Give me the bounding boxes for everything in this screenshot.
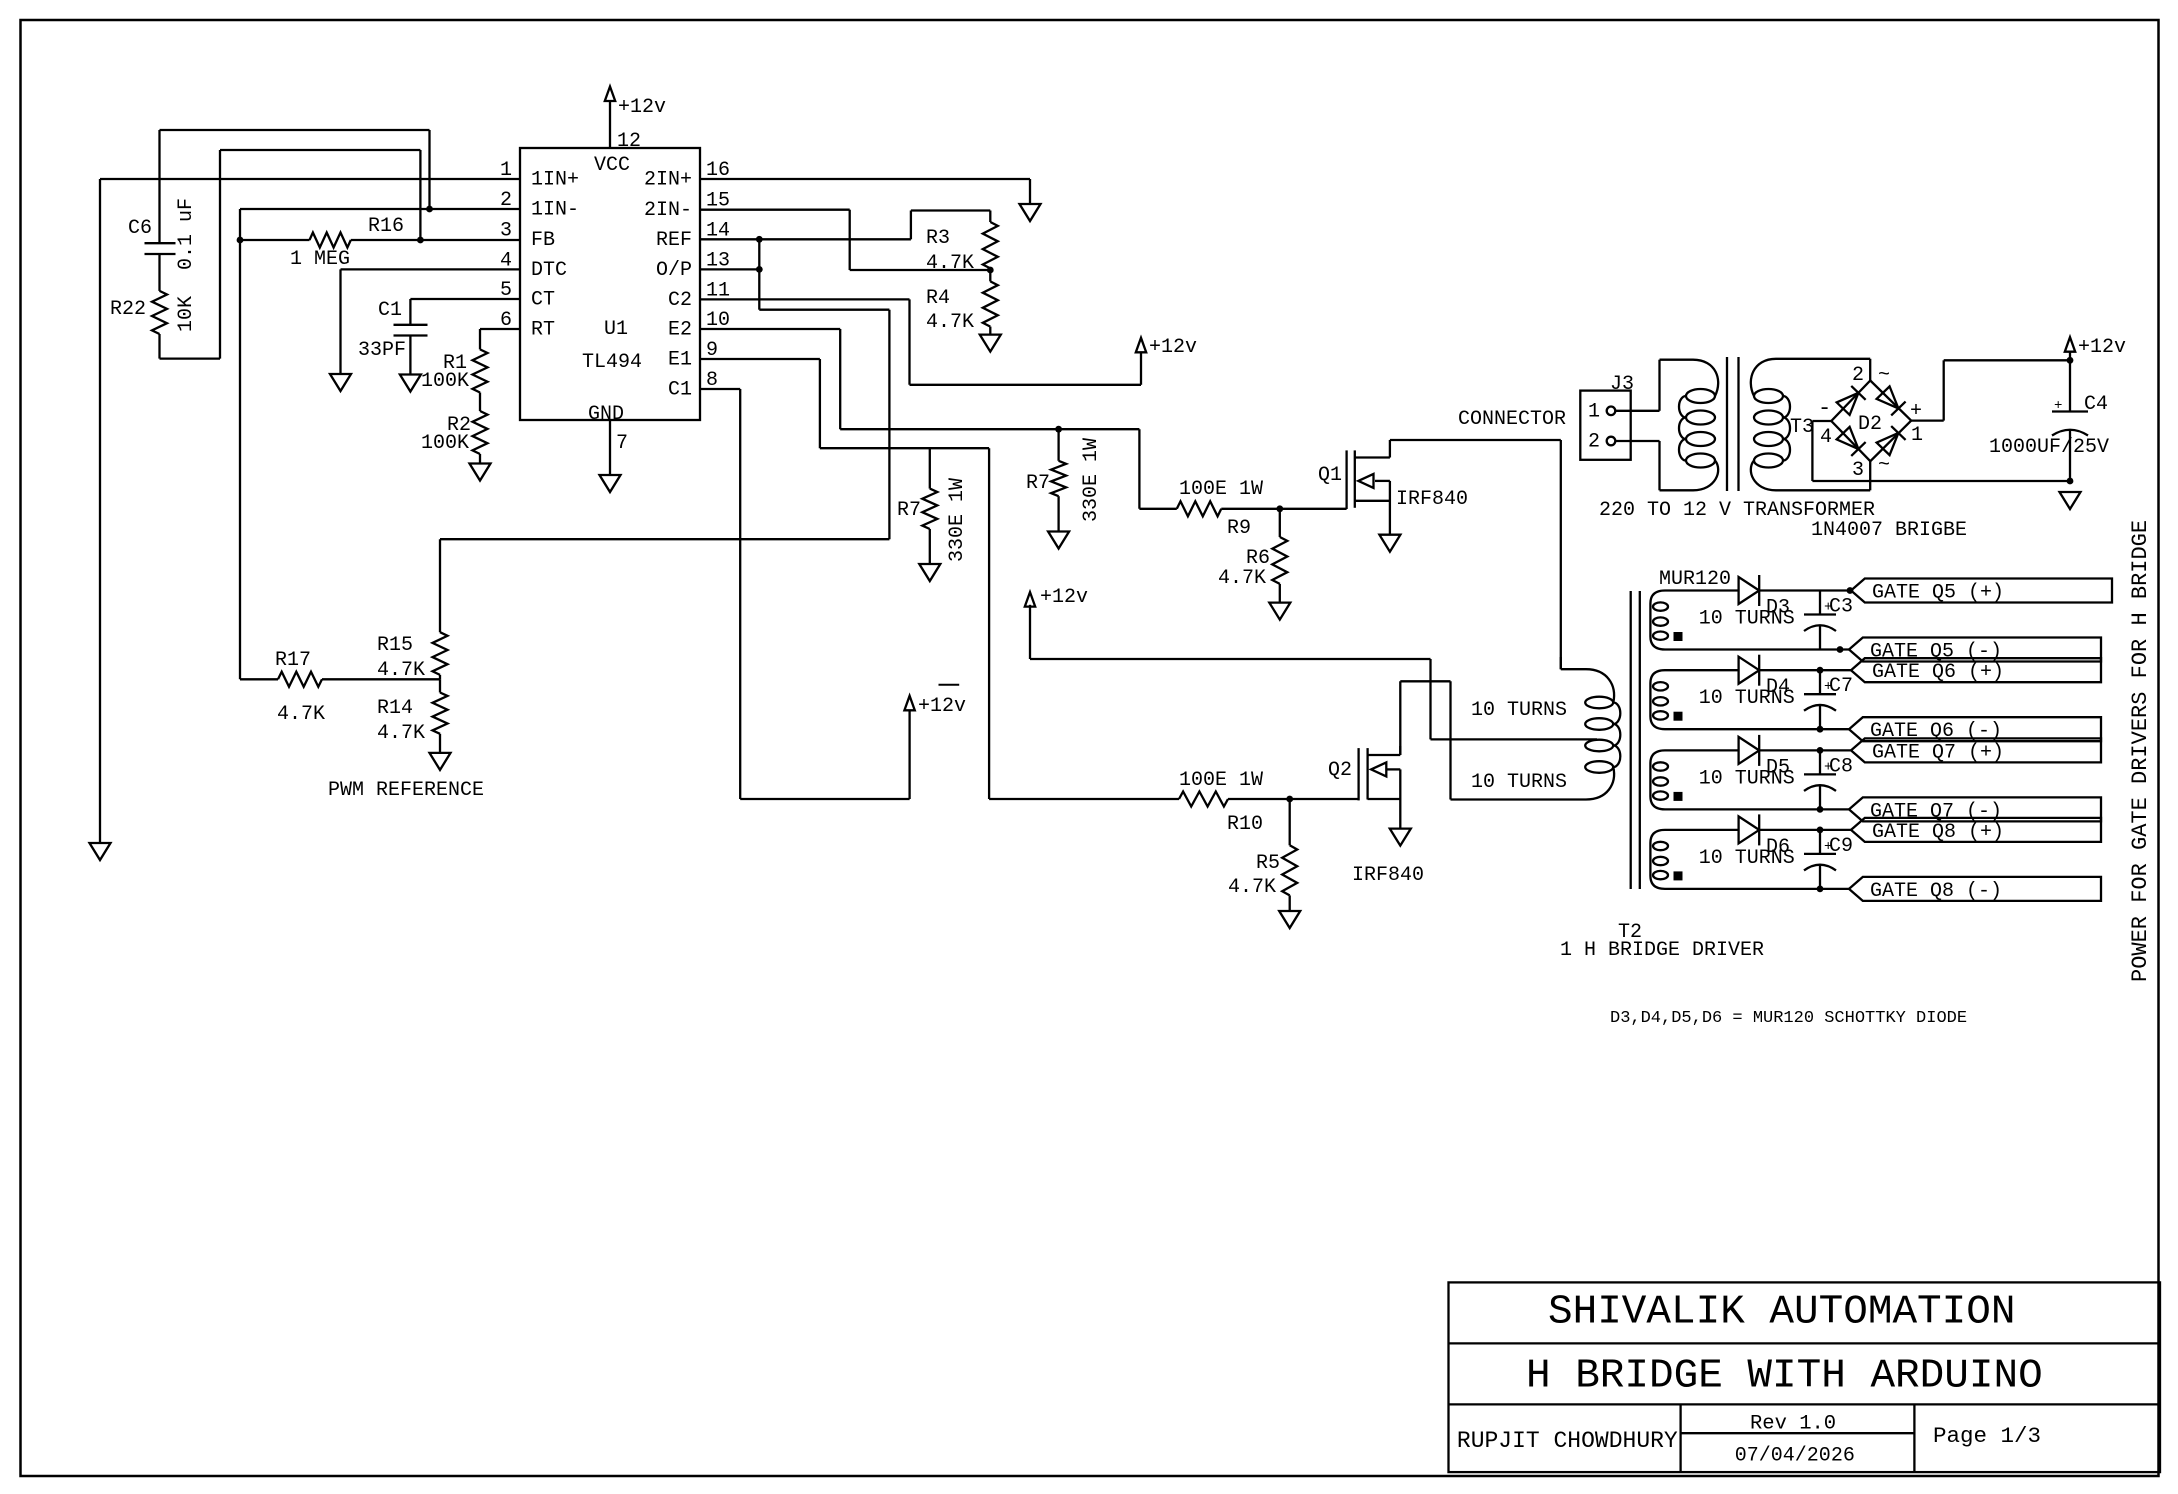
node R9/gate junction	[1276, 505, 1283, 512]
svg-text:Q2: Q2	[1328, 759, 1352, 782]
svg-text:C1: C1	[668, 379, 692, 402]
svg-text:33PF: 33PF	[358, 339, 406, 362]
transformer T2 secondary winding 1	[1650, 591, 1794, 650]
svg-text:H BRIDGE WITH ARDUINO: H BRIDGE WITH ARDUINO	[1526, 1354, 2043, 1400]
node junction pin2	[426, 206, 433, 213]
svg-text:C3: C3	[1829, 596, 1853, 619]
wire pin2 1IN-	[240, 208, 520, 210]
wire T3 secondary bottom to bridge	[1869, 461, 1871, 490]
svg-text:GATE Q8 (+): GATE Q8 (+)	[1872, 821, 2004, 844]
transformer T2 secondary winding 2	[1650, 670, 1794, 729]
title block	[1449, 1282, 2161, 1472]
wire center tap	[1030, 605, 1597, 740]
wire top (C6 top to pin2 drop)	[160, 129, 430, 131]
node O/P junction	[756, 266, 763, 273]
ground (R5)	[1279, 911, 1300, 928]
svg-text:2IN+: 2IN+	[644, 169, 692, 192]
svg-text:SHIVALIK AUTOMATION: SHIVALIK AUTOMATION	[1548, 1290, 2015, 1336]
diode D4 MUR120	[1672, 655, 1851, 700]
svg-text:1N4007 BRIGBE: 1N4007 BRIGBE	[1811, 519, 1967, 542]
svg-text:+12v: +12v	[918, 695, 966, 718]
wire bridge plus rail	[1911, 360, 2070, 420]
svg-text:PWM REFERENCE: PWM REFERENCE	[328, 779, 484, 802]
svg-text:R7: R7	[897, 499, 921, 522]
node R7 junction	[1055, 426, 1062, 433]
svg-text:E1: E1	[668, 349, 692, 372]
svg-text:C2: C2	[668, 289, 692, 312]
svg-text:TL494: TL494	[582, 351, 642, 374]
wire RT pin6	[480, 329, 520, 349]
transformer T3 secondary winding	[1751, 359, 1870, 491]
wire long left drop	[99, 179, 101, 843]
svg-text:R5: R5	[1256, 852, 1280, 875]
svg-text:R9: R9	[1227, 517, 1251, 540]
node FB junction	[237, 237, 244, 244]
svg-text:RT: RT	[531, 319, 555, 342]
resistor R22 10K	[110, 291, 198, 359]
svg-text:VCC: VCC	[594, 154, 630, 177]
node GATE Q6 (+) flag	[1851, 658, 2101, 684]
wire E2 pin10	[700, 329, 1139, 429]
wire drop to FB wire	[419, 150, 421, 240]
resistor R16	[240, 215, 520, 271]
svg-text:GATE Q7 (+): GATE Q7 (+)	[1872, 741, 2004, 764]
wire E1 pin9	[700, 359, 989, 448]
wire CT pin5	[410, 298, 520, 300]
svg-text:2: 2	[1852, 364, 1864, 387]
svg-text:GND: GND	[588, 403, 624, 426]
wire pin1 1IN+	[100, 178, 520, 180]
wire C2chain to R15	[440, 539, 889, 632]
transistor Q1 IRF840	[1318, 440, 1468, 535]
svg-text:C7: C7	[1829, 675, 1853, 698]
ground (R6)	[1269, 603, 1290, 620]
node winding4 top junction	[1817, 827, 1824, 834]
capacitor C3	[1804, 591, 1853, 650]
node winding2 top junction	[1817, 667, 1824, 674]
svg-text:GATE Q6 (-): GATE Q6 (-)	[1870, 720, 2002, 743]
node R3/R4 junction	[987, 267, 994, 274]
diode D6 MUR120	[1672, 814, 1851, 859]
arrow down-left terminal	[90, 843, 111, 860]
ground (GND pin 7)	[600, 420, 621, 492]
capacitor C8	[1804, 750, 1853, 809]
svg-text:O/P: O/P	[656, 259, 692, 282]
svg-text:R3: R3	[926, 227, 950, 250]
ground (2IN+)	[1020, 204, 1041, 221]
svg-text:4.7K: 4.7K	[1218, 567, 1266, 590]
svg-text:E2: E2	[668, 319, 692, 342]
svg-text:10 TURNS: 10 TURNS	[1471, 771, 1567, 794]
svg-text:~: ~	[1878, 454, 1890, 477]
svg-text:100E 1W: 100E 1W	[1179, 769, 1263, 792]
svg-text:CT: CT	[531, 289, 555, 312]
svg-text:1IN+: 1IN+	[531, 169, 579, 192]
svg-text:IRF840: IRF840	[1396, 488, 1468, 511]
svg-text:1IN-: 1IN-	[531, 199, 579, 222]
svg-text:DTC: DTC	[531, 259, 567, 282]
node GATE Q7 (-) flag	[1849, 797, 2101, 823]
svg-text:IRF840: IRF840	[1352, 864, 1424, 887]
svg-text:10 TURNS: 10 TURNS	[1471, 699, 1567, 722]
power +12v (T2 center tap)	[1025, 586, 1088, 609]
resistor R10 100E 1W	[1179, 769, 1290, 836]
op-amp U1 TL494 PWM controller	[500, 130, 730, 455]
svg-text:GATE Q6 (+): GATE Q6 (+)	[1872, 661, 2004, 684]
node GATE Q7 (+) flag	[1851, 738, 2101, 764]
svg-text:100K: 100K	[421, 432, 469, 455]
svg-text:R17: R17	[275, 649, 311, 672]
svg-text:C9: C9	[1829, 835, 1853, 858]
node winding1 bottom junction	[1837, 646, 1844, 653]
node GATE Q5 (-) flag	[1849, 638, 2101, 664]
connector J3	[1580, 373, 1634, 460]
svg-text:3: 3	[1852, 459, 1864, 482]
svg-text:D3,D4,D5,D6 = MUR120 SCHOTTKY: D3,D4,D5,D6 = MUR120 SCHOTTKY DIODE	[1610, 1009, 1967, 1028]
svg-text:07/04/2026: 07/04/2026	[1735, 1445, 1855, 1468]
svg-text:~: ~	[1878, 364, 1890, 387]
wire DTC pin4	[341, 269, 521, 374]
svg-text:D5: D5	[1766, 756, 1790, 779]
power +12v (C1 net, inverted)	[904, 685, 966, 718]
node GATE Q5 (+) flag	[1851, 579, 2112, 605]
ground (R7 left)	[919, 564, 940, 581]
svg-text:330E 1W: 330E 1W	[946, 478, 969, 562]
capacitor C9	[1804, 830, 1853, 889]
resistor R1 100K	[421, 349, 488, 393]
svg-text:4.7K: 4.7K	[277, 703, 325, 726]
svg-text:+12v: +12v	[2078, 336, 2126, 359]
resistor R5 4.7K	[1228, 799, 1297, 911]
svg-text:0.1 uF: 0.1 uF	[175, 198, 198, 270]
wire R22 bottom loop	[160, 150, 221, 359]
diode D3 MUR120	[1672, 575, 1851, 620]
svg-text:+12v: +12v	[1149, 336, 1197, 359]
svg-text:10K: 10K	[175, 296, 198, 332]
svg-text:R14: R14	[377, 697, 413, 720]
wire J3 pin1	[1615, 410, 1659, 412]
wire C1 pin8 chain	[700, 389, 910, 799]
svg-text:+12v: +12v	[1040, 586, 1088, 609]
wire drop to pin2	[428, 130, 430, 209]
label CONNECTOR	[1458, 408, 1566, 431]
resistor R4 4.7K	[926, 270, 998, 335]
svg-text:CONNECTOR: CONNECTOR	[1458, 408, 1566, 431]
svg-text:FB: FB	[531, 229, 555, 252]
svg-text:R7: R7	[1026, 472, 1050, 495]
transformer T2 core	[1631, 591, 1640, 889]
svg-text:100E 1W: 100E 1W	[1179, 478, 1263, 501]
svg-text:4.7K: 4.7K	[926, 252, 974, 275]
capacitor C4 1000UF/25V	[1989, 360, 2109, 481]
label MUR120	[1659, 568, 1731, 591]
wire E1 chain down to R10	[989, 448, 1179, 799]
svg-text:GATE Q8 (-): GATE Q8 (-)	[1870, 880, 2002, 903]
node GATE Q6 (-) flag	[1849, 717, 2101, 743]
wire O/P pin13	[700, 268, 759, 270]
node winding3 bottom junction	[1817, 806, 1824, 813]
label T3	[1790, 416, 1814, 439]
wire E2 chain to R9	[1139, 429, 1176, 509]
resistor R3 4.7K	[926, 211, 998, 276]
resistor R2 100K	[421, 393, 488, 456]
wire +12v to C4	[2069, 352, 2071, 360]
note D3-D6 schottky	[1610, 1009, 1967, 1028]
svg-text:J3: J3	[1610, 373, 1634, 396]
svg-text:MUR120: MUR120	[1659, 568, 1731, 591]
wire O/P down-right chain	[759, 269, 889, 539]
power +12v (C2 net)	[1136, 336, 1197, 359]
svg-text:1 MEG: 1 MEG	[290, 248, 350, 271]
ground (R2)	[470, 454, 491, 481]
svg-text:C4: C4	[2084, 393, 2108, 416]
resistor R7 330E 1W (right)	[1026, 429, 1103, 531]
ground (C1)	[400, 375, 421, 392]
capacitor C7	[1804, 670, 1853, 729]
node GATE Q8 (+) flag	[1851, 818, 2101, 844]
svg-text:2: 2	[1588, 431, 1600, 454]
wire bridge minus rail	[1812, 421, 2070, 481]
svg-text:GATE Q5 (+): GATE Q5 (+)	[1872, 582, 2004, 605]
svg-text:D3: D3	[1766, 597, 1790, 620]
capacitor C6 0.1uF	[128, 130, 198, 291]
wire winding 3 bottom lead	[1672, 808, 1849, 810]
power +12v (VCC pin 12)	[605, 87, 666, 149]
wire Q1 drain rail	[1390, 440, 1561, 669]
svg-text:R15: R15	[377, 634, 413, 657]
svg-text:D6: D6	[1766, 836, 1790, 859]
ground (R4)	[980, 335, 1001, 352]
node winding1 top junction	[1847, 587, 1854, 594]
node winding4 bottom junction	[1817, 886, 1824, 893]
svg-text:D2: D2	[1858, 413, 1882, 436]
note POWER FOR GATE DRIVERS FOR H BRIDGE	[2128, 520, 2153, 982]
node C4 bottom junction	[2067, 478, 2074, 485]
wire Q2 drain chain	[1400, 681, 1586, 799]
node REF junction	[756, 236, 763, 243]
node FB right junction	[417, 237, 424, 244]
wire second top (R22 loop to FB drop)	[220, 149, 420, 151]
svg-text:R16: R16	[368, 215, 404, 238]
resistor R15 4.7K	[377, 632, 448, 682]
resistor R9 100E 1W	[1177, 478, 1280, 540]
wire to Q1 gate	[1280, 508, 1347, 510]
svg-text:D4: D4	[1766, 676, 1790, 699]
svg-text:POWER FOR GATE DRIVERS FOR H B: POWER FOR GATE DRIVERS FOR H BRIDGE	[2128, 520, 2153, 982]
svg-text:7: 7	[616, 432, 628, 455]
svg-text:4.7K: 4.7K	[926, 311, 974, 334]
svg-text:T3: T3	[1790, 416, 1814, 439]
svg-text:REF: REF	[656, 229, 692, 252]
ground (R7 right)	[1048, 532, 1069, 549]
svg-text:Rev 1.0: Rev 1.0	[1750, 1413, 1836, 1436]
label 220 TO 12 V TRANSFORMER	[1599, 499, 1875, 522]
ground (C4)	[2060, 492, 2081, 509]
wire FB node down to R17	[239, 240, 241, 679]
svg-text:+12v: +12v	[618, 96, 666, 119]
node C4 top junction	[2067, 357, 2074, 364]
svg-text:1 H BRIDGE DRIVER: 1 H BRIDGE DRIVER	[1560, 939, 1764, 962]
wire REF-O/P link	[758, 239, 760, 269]
svg-text:1000UF/25V: 1000UF/25V	[1989, 436, 2109, 459]
svg-text:RUPJIT CHOWDHURY: RUPJIT CHOWDHURY	[1457, 1428, 1678, 1454]
svg-text:C6: C6	[128, 217, 152, 240]
wire to Q2 gate	[1290, 798, 1359, 800]
svg-text:12: 12	[617, 130, 641, 153]
label T2 / 1 H BRIDGE DRIVER	[1560, 921, 1764, 962]
svg-text:R10: R10	[1227, 813, 1263, 836]
node winding3 top junction	[1817, 747, 1824, 754]
wire 2IN+ pin16	[700, 179, 1030, 204]
svg-text:R4: R4	[926, 287, 950, 310]
transistor Q2 IRF840	[1328, 746, 1424, 887]
svg-text:GATE Q5 (-): GATE Q5 (-)	[1870, 641, 2002, 664]
transformer T2 primary windings	[1471, 657, 1620, 800]
svg-text:-: -	[1818, 396, 1831, 421]
resistor R17 4.7K	[240, 649, 440, 726]
svg-text:4: 4	[1820, 426, 1832, 449]
diode D5 MUR120	[1672, 735, 1851, 780]
ground (Q2 source)	[1390, 829, 1411, 846]
svg-text:C8: C8	[1829, 755, 1853, 778]
transformer T3 primary winding	[1660, 360, 1719, 491]
label 1N4007 BRIGBE	[1811, 519, 1967, 542]
wire 2IN- pin15	[700, 210, 990, 270]
svg-text:Q1: Q1	[1318, 464, 1342, 487]
wire REF pin14	[700, 211, 990, 240]
svg-text:2IN-: 2IN-	[644, 199, 692, 222]
svg-text:1: 1	[1588, 400, 1600, 423]
transformer T2 secondary winding 3	[1650, 750, 1794, 809]
power +12v (C4)	[2065, 336, 2126, 359]
node GATE Q8 (-) flag	[1849, 877, 2101, 903]
svg-text:4.7K: 4.7K	[1228, 876, 1276, 899]
ground (PWM REFERENCE)	[328, 753, 484, 802]
ground (DTC)	[330, 374, 351, 391]
svg-text:1: 1	[1911, 424, 1923, 447]
wire J3 pin2	[1615, 440, 1659, 442]
svg-text:4.7K: 4.7K	[377, 722, 425, 745]
wire pin2 corner down to FB node	[239, 209, 241, 240]
transformer T3 core	[1727, 357, 1739, 491]
wire winding 2 bottom lead	[1672, 728, 1849, 730]
svg-text:330E 1W: 330E 1W	[1080, 438, 1103, 522]
svg-text:R22: R22	[110, 298, 146, 321]
wire T3 secondary top to bridge	[1869, 359, 1871, 381]
svg-text:U1: U1	[604, 318, 628, 341]
node winding2 bottom junction	[1817, 726, 1824, 733]
diode bridge D2	[1818, 364, 1923, 482]
svg-text:+: +	[2054, 398, 2062, 414]
wire winding 1 bottom lead	[1672, 648, 1849, 650]
svg-text:100K: 100K	[421, 370, 469, 393]
node R10/gate junction	[1286, 796, 1293, 803]
wire winding 4 bottom lead	[1672, 888, 1849, 890]
ground (Q1 source)	[1379, 535, 1400, 552]
resistor R14 4.7K	[377, 679, 448, 753]
resistor R7 330E 1W (left)	[897, 448, 969, 564]
wire C2 pin11 to +12v	[700, 299, 1141, 384]
svg-text:C1: C1	[378, 299, 402, 322]
capacitor C1 33PF	[358, 299, 428, 375]
transformer T2 secondary winding 4	[1650, 830, 1794, 889]
resistor R6 4.7K	[1218, 509, 1287, 603]
svg-text:Page 1/3: Page 1/3	[1933, 1423, 2041, 1449]
